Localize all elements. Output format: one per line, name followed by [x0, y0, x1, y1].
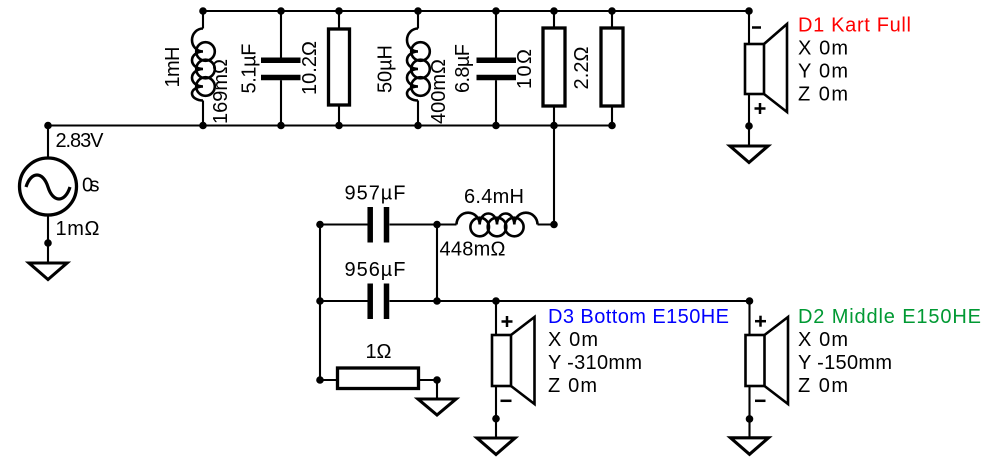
junction dot D3-ground — [492, 415, 500, 423]
wire mid branch down — [436, 225, 438, 302]
speaker D2 Middle E150HE — [746, 301, 789, 419]
svg-text:1Ω: 1Ω — [366, 341, 392, 363]
junction dot D2-ground — [746, 415, 754, 423]
svg-text:50µH: 50µH — [375, 45, 397, 93]
resistor R2 10Ω — [543, 11, 565, 126]
junction dot lower-mid — [433, 297, 441, 305]
capacitor C4 956µF — [320, 284, 387, 320]
svg-text:X 0m: X 0m — [798, 329, 848, 351]
inductor L2 50µH/400mΩ — [407, 11, 430, 126]
svg-text:956µF: 956µF — [345, 259, 406, 281]
capacitor C2 6.8µF — [477, 11, 517, 126]
junction dot R4 right — [433, 376, 441, 384]
inductor L3 6.4mH/448mΩ — [457, 213, 555, 237]
wire top rail — [203, 10, 749, 12]
junction dot lower-left — [316, 297, 324, 305]
junction dot node A mid — [433, 221, 441, 229]
voltage source V1 — [20, 126, 77, 244]
svg-text:10.2Ω: 10.2Ω — [299, 41, 321, 95]
svg-text:Y 0m: Y 0m — [798, 61, 848, 83]
polarity plus (D3) — [502, 316, 513, 327]
inductor L1 1mH/169mΩ — [192, 11, 215, 126]
junction dots top rail — [199, 7, 207, 15]
wire lower rail — [390, 300, 750, 302]
svg-text:5.1µF: 5.1µF — [239, 44, 261, 94]
svg-text:D2 Middle E150HE: D2 Middle E150HE — [798, 306, 981, 328]
svg-text:2.2Ω: 2.2Ω — [571, 46, 593, 89]
svg-text:D1 Kart Full: D1 Kart Full — [798, 15, 911, 37]
polarity minus (D1) — [752, 26, 761, 29]
wire left branch to R4 — [319, 301, 321, 380]
wire mid node A — [320, 223, 368, 225]
svg-text:6.8µF: 6.8µF — [452, 44, 474, 93]
svg-text:400mΩ: 400mΩ — [428, 59, 450, 124]
junction dot D2 corner — [746, 297, 754, 305]
ground (R4) — [418, 380, 456, 415]
svg-text:1mH: 1mH — [162, 47, 184, 88]
svg-text:X 0m: X 0m — [798, 38, 848, 60]
junction dot source-ground — [44, 239, 52, 247]
ground (D3) — [477, 419, 515, 455]
svg-text:Y -150mm: Y -150mm — [798, 352, 892, 374]
svg-text:Z 0m: Z 0m — [548, 375, 597, 397]
junction dot D1-ground — [745, 122, 753, 130]
polarity minus (D3) — [501, 400, 512, 403]
svg-text:D3 Bottom E150HE: D3 Bottom E150HE — [548, 306, 729, 328]
svg-text:X 0m: X 0m — [548, 329, 598, 351]
ground (D1) — [730, 126, 768, 163]
capacitor C3 957µF — [370, 207, 456, 243]
speaker D1 Kart Full — [745, 11, 787, 126]
ground (source) — [29, 243, 67, 280]
junction dot node A left — [316, 221, 324, 229]
svg-text:169mΩ: 169mΩ — [210, 59, 232, 124]
wire left branch down — [319, 225, 321, 302]
svg-text:1mΩ: 1mΩ — [56, 218, 100, 240]
svg-text:0s: 0s — [82, 175, 100, 197]
polarity plus (D1) — [755, 103, 766, 114]
svg-text:Z 0m: Z 0m — [798, 84, 848, 106]
ground (D2) — [731, 419, 769, 454]
svg-text:Z 0m: Z 0m — [798, 375, 848, 397]
polarity plus (D2) — [755, 316, 766, 327]
junction dots bottom rail — [44, 122, 52, 130]
speaker D3 Bottom E150HE — [492, 301, 535, 419]
svg-text:2.83V: 2.83V — [56, 130, 105, 152]
capacitor C1 5.1µF — [261, 11, 301, 126]
svg-text:448mΩ: 448mΩ — [440, 239, 506, 261]
resistor R1 10.2Ω — [329, 11, 350, 126]
svg-text:957µF: 957µF — [345, 183, 406, 205]
junction dot D3 tap — [492, 297, 500, 305]
wire 10Ω-bottom to L3 — [553, 126, 555, 225]
junction dot R4 left — [316, 376, 324, 384]
resistor R3 2.2Ω — [601, 11, 623, 126]
resistor R4 1Ω — [320, 368, 437, 389]
junction dot L3 corner — [550, 221, 558, 229]
svg-text:6.4mH: 6.4mH — [464, 186, 524, 208]
svg-text:10Ω: 10Ω — [514, 49, 536, 89]
svg-text:Y -310mm: Y -310mm — [548, 352, 642, 374]
polarity minus (D2) — [755, 400, 766, 403]
wire bottom rail — [48, 124, 612, 126]
